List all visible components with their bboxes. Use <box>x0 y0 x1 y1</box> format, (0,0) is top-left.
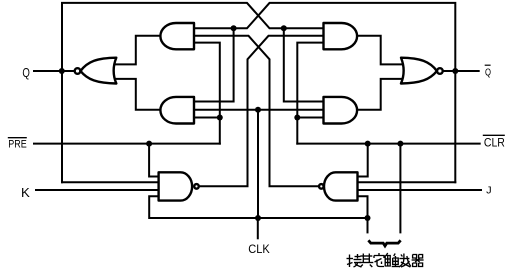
bubble G7 <box>194 184 199 189</box>
node slave row CLK junction <box>255 107 261 113</box>
wire PRE line <box>34 143 220 145</box>
wire Qbar feedback to G8 in2 <box>358 181 456 183</box>
wire J input to G8 in3 <box>358 189 482 191</box>
wire PRE riser to G3 in3 <box>194 43 220 144</box>
wire CLR stub to other flip-flops <box>399 144 401 233</box>
bubble G1 <box>75 68 81 74</box>
node CLR/G6 junction <box>294 115 300 121</box>
node Qbar junction <box>452 68 458 74</box>
gate G7 NAND bottom-left (points right) <box>159 172 192 200</box>
wire CLR riser to G5 in3 <box>297 43 323 144</box>
gate G5 AND top-right (points right) <box>324 23 358 49</box>
node CLR junction 2 <box>397 141 403 147</box>
wire Q-feedback top-left: Q node up left frame, along top, cross to right 2nd level <box>62 3 324 182</box>
char 接 <box>347 254 362 267</box>
char 其 <box>359 254 373 268</box>
wire CLK riser: slave row dot down to CLK line dot <box>257 110 259 218</box>
gate G2 NOR right (points right, output Qbar) <box>401 58 437 84</box>
node PRE junction <box>146 141 152 147</box>
wire K input to G7 in3 <box>36 189 159 191</box>
char 触 <box>385 253 399 267</box>
svg-text:Q: Q <box>22 65 30 80</box>
brace (goes to other flip-flops) <box>368 240 400 246</box>
wire Qbar-feedback top-right: Qbar node up right frame, along top, cross to left 2nd level <box>194 3 455 182</box>
svg-text:Q: Q <box>485 66 491 78</box>
svg-text:PRE: PRE <box>8 139 27 151</box>
gate G4 AND bottom-left (points left) <box>160 97 194 124</box>
node PRE/G4 junction <box>217 115 223 121</box>
wire G4 in1 from left 2nd-level dot <box>194 28 234 101</box>
wire PRE branch to G4 in3 <box>194 117 220 119</box>
node CLR junction 1 <box>365 141 371 147</box>
wire G8 output: bubble left, up, cross to left row3 (G3 in2) <box>194 36 319 187</box>
node right 2nd-level junction <box>281 25 287 31</box>
gate G8 NAND bottom-right (points left) <box>324 172 358 200</box>
wire CLK slave row: G4 in2 across to G6 in2 <box>194 109 324 111</box>
wire G7 output: bubble right, up, cross to right row3 (G5 in2) <box>199 36 324 187</box>
node CLK line end junction <box>365 215 371 221</box>
wire CLR line <box>297 143 479 145</box>
wire CLR drop to G8 in1 <box>358 144 368 177</box>
wire G4 output to G1 bottom input connector <box>115 79 161 110</box>
text 接其它触发器 (drawn strokes) <box>347 253 424 267</box>
wire Q feedback to G7 in2 <box>62 181 159 183</box>
wire G7 in4 from CLK line <box>149 196 367 218</box>
char 它 <box>374 253 384 267</box>
node CLK line junction <box>255 215 261 221</box>
wire CLK terminal stub <box>257 218 259 238</box>
wire CLR branch to G6 in3 <box>297 117 323 119</box>
wire PRE drop to G7 in1 <box>149 144 159 177</box>
svg-text:K: K <box>21 185 30 200</box>
char 发 <box>399 254 411 268</box>
gate G3 AND top-left (points left) <box>160 23 194 49</box>
wire G6 in1 from right 2nd-level dot <box>284 28 324 101</box>
svg-text:J: J <box>486 184 492 196</box>
wire Q output: Q terminal to G1 bubble <box>34 70 75 72</box>
node Q junction <box>59 68 65 74</box>
svg-text:CLR: CLR <box>484 135 505 149</box>
wire Qbar output: G2 bubble to Qbar terminal <box>443 70 479 72</box>
wire G5 output to G2 top input connector <box>357 36 403 65</box>
svg-text:CLK: CLK <box>248 244 270 256</box>
bubble G2 <box>437 68 443 74</box>
node left 2nd-level junction <box>231 25 237 31</box>
gate G6 AND bottom-right (points right) <box>324 97 358 124</box>
char 器 <box>412 255 424 267</box>
wire G3 output to G1 top input connector <box>115 36 161 65</box>
gate G1 NOR left (points left, output Q) <box>81 58 117 84</box>
wire CLK stub to other flip-flops <box>367 218 369 232</box>
wire G6 output to G2 bottom input connector <box>357 79 403 110</box>
bubble G8 <box>319 184 324 189</box>
wire G8 in4 from CLK line end <box>358 196 368 218</box>
